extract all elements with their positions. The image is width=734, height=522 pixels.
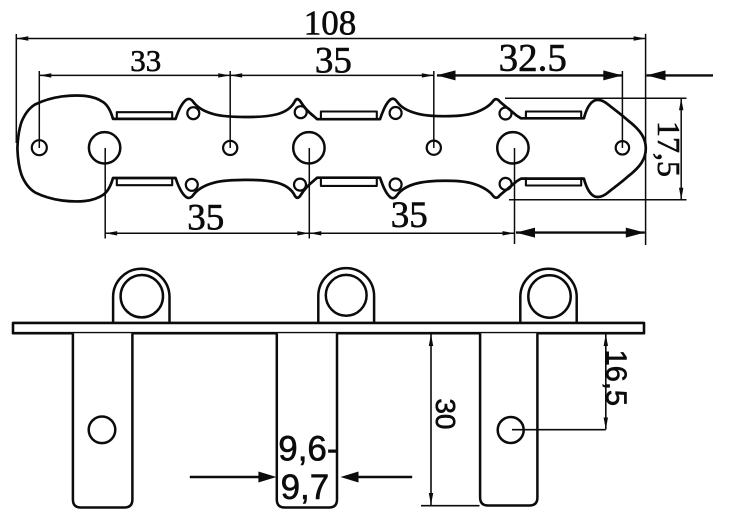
svg-text:108: 108 <box>304 3 357 42</box>
svg-text:9,6-: 9,6- <box>278 429 338 468</box>
svg-text:35: 35 <box>187 198 224 239</box>
svg-text:16,5: 16,5 <box>600 350 632 406</box>
svg-text:35: 35 <box>391 195 428 236</box>
svg-text:35: 35 <box>315 40 352 81</box>
svg-text:30: 30 <box>430 398 461 429</box>
svg-text:17,5: 17,5 <box>651 121 687 177</box>
svg-text:33: 33 <box>130 43 161 78</box>
svg-text:32.5: 32.5 <box>499 36 567 79</box>
svg-text:9,7: 9,7 <box>281 468 330 507</box>
